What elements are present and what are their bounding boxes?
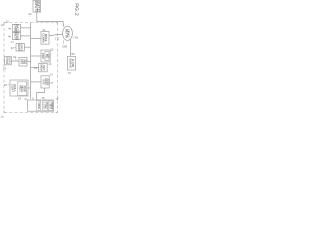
box R1 (server): [67, 56, 75, 70]
wire bus to C4: [31, 81, 42, 83]
box C3 (memory): [39, 63, 48, 71]
box T1 (top input unit): [33, 1, 41, 13]
inner box IB2: [43, 101, 48, 111]
bottom output outer box: [28, 100, 54, 111]
svg-text:N1: N1: [75, 35, 79, 39]
wire bus to C3: [31, 67, 39, 69]
inner box IB1: [37, 101, 41, 111]
svg-text:ROLL: ROLL: [13, 84, 17, 92]
svg-text:12: 12: [1, 23, 5, 27]
svg-text:UNT4: UNT4: [50, 102, 53, 109]
inner box IB3: [48, 101, 53, 111]
svg-text:14: 14: [48, 62, 52, 66]
svg-text:MODL: MODL: [44, 34, 48, 43]
svg-text:1b: 1b: [50, 72, 54, 76]
svg-text:1a: 1a: [0, 115, 4, 119]
ellipse NET (network): [63, 26, 73, 40]
svg-text:13: 13: [34, 66, 38, 70]
svg-text:10: 10: [6, 19, 10, 23]
wire C1 to network: [49, 34, 63, 36]
wire bus to C2: [31, 55, 42, 57]
wire T1 down: [36, 12, 38, 21]
svg-text:44: 44: [11, 40, 15, 44]
wire network down to server: [69, 39, 71, 56]
svg-text:ORK2: ORK2: [67, 29, 71, 38]
box C4 (interface): [41, 76, 49, 88]
svg-text:OR31: OR31: [19, 44, 23, 52]
wire controller to bus: [28, 87, 31, 89]
svg-text:3a: 3a: [28, 12, 32, 16]
svg-text:MOD: MOD: [23, 86, 27, 92]
svg-text:SUPL: SUPL: [7, 57, 11, 65]
bus vertical: [30, 23, 32, 100]
svg-text:4b: 4b: [8, 34, 12, 38]
box L2: [12, 32, 20, 39]
box P2 (battery): [19, 57, 27, 66]
svg-text:60: 60: [72, 52, 76, 56]
controller inner box: [18, 82, 27, 96]
dashed device boundary 100: [4, 22, 58, 24]
svg-text:ORY: ORY: [42, 65, 46, 71]
wire L2 to bus: [21, 35, 31, 37]
box C2 (display): [41, 50, 50, 62]
svg-text:19: 19: [18, 96, 22, 100]
box C1 (comm module): [41, 32, 49, 45]
wire bus to C1: [31, 38, 42, 40]
wire P1 to P2: [12, 60, 20, 62]
svg-text:OPHN: OPHN: [16, 32, 20, 40]
wire C4 down to output box: [37, 88, 45, 100]
box L3: [16, 44, 24, 51]
svg-text:11: 11: [55, 97, 58, 101]
svg-text:Y10: Y10: [24, 59, 28, 64]
svg-text:4a: 4a: [8, 26, 12, 30]
wire L1 to bus: [21, 27, 31, 29]
svg-text:500: 500: [62, 44, 67, 48]
controller outer box: [10, 80, 28, 96]
svg-text:FIG. 2: FIG. 2: [74, 3, 79, 16]
svg-text:70: 70: [68, 71, 72, 75]
svg-text:172: 172: [55, 37, 60, 41]
box P1 (power): [5, 57, 12, 65]
svg-text:R 200: R 200: [71, 59, 75, 67]
wire P2 to bus: [27, 61, 31, 63]
svg-text:SPKR: SPKR: [37, 102, 40, 109]
svg-text:PNL2: PNL2: [44, 102, 47, 109]
box L1: [12, 24, 20, 31]
svg-text:RA21: RA21: [16, 24, 20, 31]
svg-text:15: 15: [50, 47, 54, 51]
svg-text:18: 18: [4, 83, 8, 87]
svg-text:42: 42: [11, 46, 15, 50]
svg-text:151: 151: [46, 54, 49, 59]
leader tick to ellipse right: [72, 36, 74, 38]
wire L3 to bus: [24, 46, 30, 48]
svg-text:8a: 8a: [13, 55, 17, 59]
svg-text:19: 19: [3, 66, 7, 70]
svg-text:UNIT12: UNIT12: [36, 1, 40, 12]
svg-text:15: 15: [42, 96, 46, 100]
svg-text:17: 17: [50, 81, 54, 85]
wire top horizontal to network: [37, 21, 64, 26]
